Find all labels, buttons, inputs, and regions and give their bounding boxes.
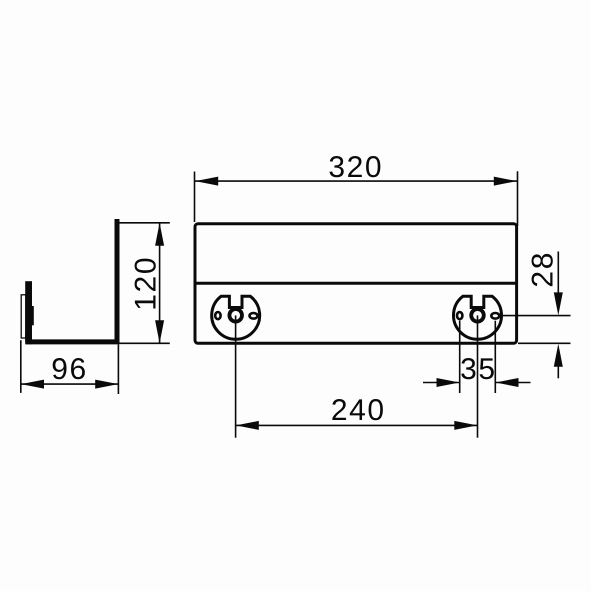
dim 96: dimension line bbox=[21, 383, 119, 385]
dim 28: extension line from bottom edge bbox=[518, 342, 571, 344]
dim 320: arrow left bbox=[195, 177, 218, 186]
front view: horizontal divider line bbox=[195, 282, 517, 285]
dim 96: extension line left bbox=[20, 340, 22, 393]
dim 96: extension line right bbox=[117, 345, 119, 395]
side view: front lip thick bar bbox=[25, 281, 32, 342]
dim 35: extension line left bbox=[459, 321, 461, 393]
side view: bottom-left corner patch bbox=[25, 334, 32, 344]
dim 35: arrow right (points left) bbox=[496, 378, 519, 387]
dim 28: dimension line lower segment bbox=[557, 360, 559, 378]
dim 120: dimension line bbox=[159, 223, 161, 343]
dim 28: arrow top (points down) bbox=[554, 292, 563, 315]
side view: thin front strip rectangle bbox=[21, 295, 26, 338]
dim 35: dimension line left tail bbox=[423, 382, 460, 384]
dim 240: dimension line bbox=[236, 424, 478, 426]
dim 96: arrow left bbox=[21, 380, 44, 389]
dim 320: extension line right bbox=[517, 171, 519, 226]
svg-text:320: 320 bbox=[328, 151, 383, 184]
rosette right: outer circle with top notch bbox=[454, 296, 502, 339]
dim 240: extension line left from hole center bbox=[235, 315, 237, 437]
svg-text:35: 35 bbox=[460, 353, 497, 386]
side view: back vertical wall bbox=[115, 219, 120, 344]
rosette left: outer circle with top notch bbox=[212, 296, 260, 339]
dim 120: extension line top bbox=[115, 222, 170, 224]
rosette left: right small slot bbox=[250, 313, 258, 319]
svg-text:96: 96 bbox=[51, 353, 88, 386]
rosette right: right small slot bbox=[491, 313, 499, 319]
dim 28: arrow bottom (points up) bbox=[554, 344, 563, 367]
dim 35: arrow left (points right) bbox=[437, 378, 460, 387]
dim 120: arrow bottom bbox=[155, 320, 164, 343]
svg-text:28: 28 bbox=[527, 251, 560, 288]
dim 35: dimension line right tail bbox=[495, 382, 530, 384]
side view: small catch blob on lip bbox=[32, 306, 34, 325]
dim 96: arrow right bbox=[95, 380, 118, 389]
rosette right: central screw hole bbox=[471, 309, 484, 322]
rosette left: left small slot bbox=[215, 312, 220, 319]
rosette right: left small slot bbox=[457, 312, 462, 319]
dim 240: extension line right from hole center bbox=[477, 315, 479, 437]
dim 28: extension line from hole center bbox=[503, 315, 571, 317]
front view: outer rounded rectangle bbox=[195, 224, 517, 344]
rosette left: central screw hole bbox=[229, 309, 242, 322]
dim 240: arrow left bbox=[236, 421, 259, 430]
dim 35: extension line right bbox=[494, 321, 496, 393]
dim 240: arrow right bbox=[454, 421, 477, 430]
dim 320: extension line left bbox=[194, 172, 196, 223]
svg-text:120: 120 bbox=[130, 256, 163, 311]
dim 320: arrow right bbox=[494, 177, 517, 186]
side view: bottom base line bbox=[26, 339, 120, 344]
svg-text:240: 240 bbox=[331, 394, 386, 427]
dim 120: extension line bottom bbox=[120, 342, 170, 344]
dim 320: dimension line bbox=[195, 180, 518, 182]
dim 120: arrow top bbox=[155, 223, 164, 246]
dim 28: dimension line upper segment bbox=[557, 252, 559, 301]
